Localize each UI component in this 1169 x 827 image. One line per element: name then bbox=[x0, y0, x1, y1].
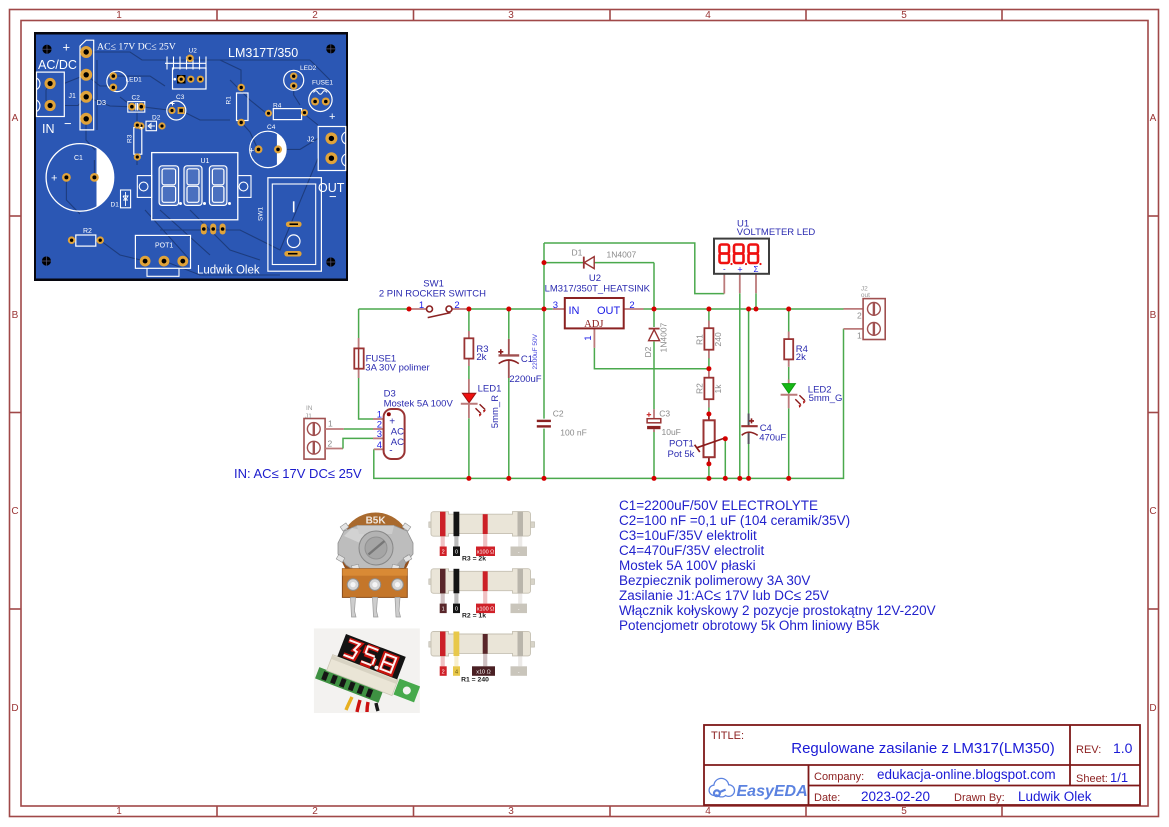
svg-text:C4: C4 bbox=[267, 124, 276, 131]
wire J1 pin1 to D3 pin2 bbox=[344, 428, 373, 430]
junction bottom rail/LED2 bbox=[786, 476, 791, 481]
svg-text:−: − bbox=[329, 189, 337, 204]
svg-text:AC≤ 17V DC≤ 25V: AC≤ 17V DC≤ 25V bbox=[97, 42, 176, 53]
svg-text:B: B bbox=[1150, 310, 1157, 321]
svg-text:LED2: LED2 bbox=[300, 65, 317, 72]
svg-text:IN: AC≤ 17V DC≤ 25V: IN: AC≤ 17V DC≤ 25V bbox=[234, 466, 362, 481]
wire ADJ bbox=[594, 348, 709, 369]
svg-text:D1: D1 bbox=[111, 202, 120, 209]
switch SW1 bbox=[379, 279, 486, 318]
svg-text:2200uF 50V: 2200uF 50V bbox=[532, 333, 539, 369]
svg-text:2 PIN ROCKER SWITCH: 2 PIN ROCKER SWITCH bbox=[379, 289, 486, 300]
glowing red digits 36.8 bbox=[343, 639, 397, 674]
junction R2/POT1 bbox=[706, 412, 711, 417]
svg-text:R2: R2 bbox=[694, 383, 704, 394]
svg-text:SW1: SW1 bbox=[258, 207, 265, 221]
connector J2 bbox=[844, 286, 886, 341]
svg-text:TITLE:: TITLE: bbox=[711, 730, 744, 742]
resistor R3 bbox=[464, 331, 488, 366]
svg-text:3: 3 bbox=[508, 10, 514, 21]
capacitor C2 bbox=[537, 409, 587, 438]
svg-text:+: + bbox=[51, 173, 57, 185]
LED LED2 bbox=[781, 380, 843, 409]
svg-text:2200uF: 2200uF bbox=[509, 374, 541, 385]
svg-text:C1=2200uF/50V ELECTROLYTE: C1=2200uF/50V ELECTROLYTE bbox=[619, 498, 818, 513]
svg-text:5mm_R: 5mm_R bbox=[490, 395, 501, 428]
svg-text:100 nF: 100 nF bbox=[560, 428, 586, 438]
svg-text:Mostek 5A 100V: Mostek 5A 100V bbox=[384, 399, 454, 410]
diode D2 bbox=[643, 322, 669, 357]
svg-text:REV:: REV: bbox=[1076, 744, 1101, 756]
resistor R1 branch wire bbox=[708, 309, 710, 369]
R1 footprint bbox=[237, 84, 249, 127]
svg-text:−: − bbox=[64, 116, 72, 131]
C2 footprint bbox=[128, 102, 145, 113]
wires bbox=[346, 697, 352, 710]
svg-text:LM317/350T_HEATSINK: LM317/350T_HEATSINK bbox=[545, 283, 651, 294]
corner holes bbox=[42, 44, 336, 266]
svg-text:5: 5 bbox=[901, 806, 907, 817]
svg-text:C: C bbox=[11, 506, 18, 517]
junction bottom rail/LED1 bbox=[466, 476, 471, 481]
svg-text:2: 2 bbox=[857, 310, 862, 320]
svg-text:+: + bbox=[249, 146, 254, 156]
svg-text:Ludwik Olek: Ludwik Olek bbox=[1018, 789, 1092, 804]
cream case bbox=[327, 655, 398, 696]
node branch x=544 wires bbox=[544, 243, 724, 309]
svg-text:Włącznik kołyskowy 2 pozycje p: Włącznik kołyskowy 2 pozycje prostokątny… bbox=[619, 603, 936, 618]
junction ADJ/R1/R2 bbox=[706, 366, 711, 371]
svg-text:-: - bbox=[723, 265, 726, 274]
junction rail/C1 branch bbox=[506, 307, 511, 312]
junction bottom rail/C2 bbox=[542, 476, 547, 481]
black display face bbox=[337, 634, 405, 679]
svg-text:2k: 2k bbox=[796, 352, 806, 363]
svg-text:1/1: 1/1 bbox=[1110, 770, 1128, 785]
svg-text:R3 = 2k: R3 = 2k bbox=[462, 556, 486, 563]
SW1 footprint bbox=[268, 178, 322, 272]
svg-text:IN: IN bbox=[42, 122, 55, 136]
svg-text:Potencjometr obrotowy 5k Ohm l: Potencjometr obrotowy 5k Ohm liniowy B5k bbox=[619, 618, 880, 633]
U1 footprint bbox=[137, 153, 251, 235]
LED LED1 bbox=[461, 379, 502, 428]
junction bottom rail/C4 bbox=[746, 476, 751, 481]
svg-text:LED1: LED1 bbox=[126, 77, 143, 84]
svg-text:B5K: B5K bbox=[366, 516, 387, 527]
svg-text:C3: C3 bbox=[176, 94, 185, 101]
D2 footprint bbox=[137, 121, 165, 131]
fuse FUSE1 bbox=[354, 338, 429, 378]
svg-text:-: - bbox=[518, 607, 520, 613]
voltmeter U1 bbox=[714, 219, 815, 294]
svg-text:Pot 5k: Pot 5k bbox=[668, 449, 695, 460]
D3 footprint bbox=[80, 40, 94, 130]
junction rail/R1 branch bbox=[706, 307, 711, 312]
svg-text:D1: D1 bbox=[572, 248, 583, 258]
PHOTO resistor R2 (brown-black-red) bbox=[429, 569, 535, 620]
SCHEMATIC bbox=[234, 219, 885, 482]
svg-text:AC/DC: AC/DC bbox=[38, 58, 77, 72]
LED2 footprint bbox=[284, 70, 304, 90]
svg-text:2: 2 bbox=[312, 10, 318, 21]
POT1 footprint bbox=[135, 235, 190, 276]
svg-text:C2=100 nF =0,1 uF (104 ceramik: C2=100 nF =0,1 uF (104 ceramik/35V) bbox=[619, 513, 850, 528]
svg-text:Company:: Company: bbox=[814, 771, 864, 783]
svg-text:OUT: OUT bbox=[597, 305, 621, 317]
junction bottom rail/POT1 bbox=[706, 476, 711, 481]
svg-text:C2: C2 bbox=[132, 95, 141, 102]
junction D1 tap bbox=[542, 260, 547, 265]
junction bottom rail/C1 bbox=[506, 476, 511, 481]
svg-text:R1: R1 bbox=[694, 334, 704, 345]
svg-text:ADJ: ADJ bbox=[584, 319, 603, 330]
regulator U2 bbox=[545, 273, 651, 348]
svg-text:Ludwik Olek: Ludwik Olek bbox=[197, 265, 260, 277]
D1 footprint bbox=[121, 190, 131, 208]
svg-text:U2: U2 bbox=[189, 48, 198, 55]
svg-text:VOLTMETER LED: VOLTMETER LED bbox=[737, 227, 816, 238]
svg-text:D2: D2 bbox=[643, 346, 653, 357]
svg-text:R2: R2 bbox=[83, 228, 92, 235]
svg-text:1: 1 bbox=[116, 10, 122, 21]
LED1 footprint bbox=[107, 71, 127, 91]
svg-text:1: 1 bbox=[583, 336, 594, 341]
svg-text:B: B bbox=[12, 310, 19, 321]
svg-text:2: 2 bbox=[442, 550, 445, 556]
junction POT1 wiper bbox=[723, 436, 728, 441]
resistor R4 branch wire bbox=[788, 309, 790, 478]
svg-text:5: 5 bbox=[901, 10, 907, 21]
svg-text:Zasilanie J1:AC≤ 17V lub DC≤ 2: Zasilanie J1:AC≤ 17V lub DC≤ 25V bbox=[619, 588, 829, 603]
svg-text:R1 = 240: R1 = 240 bbox=[461, 676, 489, 683]
green pcb strip bbox=[315, 667, 383, 703]
PHOTO resistor R1 (red-yellow-brown) bbox=[429, 631, 535, 683]
svg-text:-: - bbox=[389, 446, 392, 457]
svg-text:1N4007: 1N4007 bbox=[607, 250, 637, 260]
svg-text:1: 1 bbox=[328, 419, 333, 429]
junction rail/C2/D1 branch bbox=[542, 307, 547, 312]
svg-text:FUSE1: FUSE1 bbox=[312, 80, 333, 87]
wire J1 pin2 to D3 pin3 bbox=[343, 438, 373, 448]
svg-text:3: 3 bbox=[508, 806, 514, 817]
svg-text:+: + bbox=[63, 40, 71, 55]
svg-text:2: 2 bbox=[454, 300, 459, 311]
resistor R3 / LED1 branch wire bbox=[468, 309, 470, 478]
PCB LAYOUT IMAGE bbox=[34, 32, 348, 281]
svg-text:4: 4 bbox=[705, 10, 711, 21]
svg-text:edukacja-online.blogspot.com: edukacja-online.blogspot.com bbox=[877, 767, 1056, 782]
capacitor C2 branch wire bbox=[543, 309, 545, 478]
diode D2 branch wire bbox=[653, 309, 655, 478]
svg-text:LED1: LED1 bbox=[478, 383, 502, 394]
junction rail/D2 branch bbox=[652, 307, 657, 312]
junction rail/R4 branch bbox=[786, 307, 791, 312]
svg-text:U1: U1 bbox=[201, 158, 210, 165]
svg-text:1: 1 bbox=[857, 331, 862, 341]
green tab bbox=[394, 679, 421, 703]
svg-text:C: C bbox=[1149, 506, 1156, 517]
svg-text:2: 2 bbox=[328, 439, 333, 449]
junction rail/C4 branch bbox=[746, 307, 751, 312]
resistor R4 bbox=[784, 332, 808, 367]
svg-text:470uF: 470uF bbox=[759, 433, 786, 444]
svg-text:2: 2 bbox=[442, 669, 445, 675]
svg-text:C1: C1 bbox=[74, 155, 83, 162]
svg-text:1: 1 bbox=[116, 806, 122, 817]
svg-text:C3: C3 bbox=[659, 409, 670, 419]
junction rail/R3 branch bbox=[466, 307, 471, 312]
svg-text:2: 2 bbox=[629, 300, 634, 311]
svg-text:4: 4 bbox=[377, 440, 382, 451]
svg-text:240: 240 bbox=[713, 332, 723, 346]
svg-text:Drawn By:: Drawn By: bbox=[954, 792, 1005, 804]
junction bottom rail/C3 bbox=[652, 476, 657, 481]
svg-text:EasyEDA: EasyEDA bbox=[737, 783, 808, 800]
connector J1 bbox=[304, 405, 344, 459]
C3 footprint bbox=[167, 101, 186, 120]
svg-text:D: D bbox=[1149, 703, 1156, 714]
svg-text:R3: R3 bbox=[127, 134, 134, 143]
R3 footprint bbox=[134, 122, 142, 161]
R2 footprint bbox=[68, 235, 104, 246]
svg-text:C4=470uF/35V electrolit: C4=470uF/35V electrolit bbox=[619, 543, 764, 558]
J2 footprint bbox=[318, 127, 346, 171]
svg-text:A: A bbox=[1150, 113, 1157, 124]
R4 footprint bbox=[265, 109, 308, 120]
resistor R2 bbox=[694, 369, 723, 408]
capacitor C1 branch wire bbox=[508, 309, 510, 478]
svg-text:3: 3 bbox=[553, 300, 558, 311]
svg-text:C2: C2 bbox=[553, 409, 564, 419]
junction POT1 lower pin bbox=[706, 461, 711, 466]
EasyEDA logo bbox=[710, 779, 808, 800]
svg-text:IN: IN bbox=[306, 405, 313, 412]
junction bottom rail/wiper bbox=[723, 476, 728, 481]
svg-text:5mm_G: 5mm_G bbox=[809, 393, 843, 404]
svg-text:1.0: 1.0 bbox=[1113, 740, 1133, 756]
resistor R1 bbox=[694, 321, 723, 359]
svg-text:AC: AC bbox=[391, 437, 404, 448]
svg-text:LM317T/350: LM317T/350 bbox=[228, 46, 298, 60]
svg-text:J1: J1 bbox=[305, 413, 312, 420]
svg-text:2: 2 bbox=[312, 806, 318, 817]
capacitor C1 bbox=[498, 333, 542, 384]
wire U1 pin2 down bbox=[739, 293, 741, 478]
wire POT1 lower + wiper bbox=[709, 439, 725, 479]
svg-text:1N4007: 1N4007 bbox=[659, 322, 669, 352]
wire bottom rail bbox=[374, 329, 844, 479]
svg-text:Mostek 5A 100V płaski: Mostek 5A 100V płaski bbox=[619, 558, 756, 573]
svg-text:3A 30V polimer: 3A 30V polimer bbox=[365, 363, 429, 374]
svg-text:J1: J1 bbox=[69, 93, 77, 100]
svg-text:A: A bbox=[12, 113, 19, 124]
svg-text:C3=10uF/35V elektrolit: C3=10uF/35V elektrolit bbox=[619, 528, 757, 543]
svg-text:POT1: POT1 bbox=[155, 243, 173, 250]
svg-text:4: 4 bbox=[705, 806, 711, 817]
silkscreen texts bbox=[38, 40, 345, 277]
svg-text:2023-02-20: 2023-02-20 bbox=[861, 789, 930, 804]
svg-text:out: out bbox=[861, 292, 870, 299]
svg-text:D: D bbox=[11, 703, 18, 714]
TITLE BLOCK bbox=[704, 725, 1140, 805]
potentiometer POT1 bbox=[668, 414, 724, 464]
junction SW1 pin1 node bbox=[407, 307, 412, 312]
traces bbox=[46, 52, 330, 275]
svg-text:IN: IN bbox=[569, 305, 580, 317]
C4 footprint bbox=[249, 131, 286, 167]
svg-text:x10 Ω: x10 Ω bbox=[476, 669, 491, 675]
svg-text:R2 = 1k: R2 = 1k bbox=[462, 613, 486, 620]
svg-text:Date:: Date: bbox=[814, 792, 840, 804]
svg-text:1k: 1k bbox=[713, 384, 723, 394]
bridge rectifier D3 bbox=[373, 389, 453, 460]
svg-text:Sheet:: Sheet: bbox=[1076, 773, 1108, 785]
wire fuse branch bbox=[359, 309, 373, 419]
diode D1 bbox=[572, 248, 637, 269]
svg-text:0: 0 bbox=[455, 607, 458, 613]
svg-text:4: 4 bbox=[455, 669, 458, 675]
svg-text:D2: D2 bbox=[152, 115, 161, 122]
capacitor C3 bbox=[647, 409, 681, 437]
SPEC TEXT LIST bbox=[619, 498, 936, 633]
svg-text:1: 1 bbox=[442, 607, 445, 613]
svg-text:3: 3 bbox=[377, 429, 382, 440]
svg-text:2k: 2k bbox=[476, 352, 486, 363]
svg-text:-: - bbox=[518, 550, 520, 556]
junction bottom rail/U1 pin2 bbox=[737, 476, 742, 481]
svg-text:-: - bbox=[518, 669, 520, 675]
U2 footprint bbox=[165, 55, 206, 90]
PHOTO resistor R3 (red-black-red) bbox=[429, 512, 535, 563]
svg-text:+: + bbox=[329, 111, 335, 123]
svg-text:AC: AC bbox=[391, 427, 404, 438]
svg-text:Bezpiecznik polimerowy 3A 30V: Bezpiecznik polimerowy 3A 30V bbox=[619, 573, 810, 588]
wire U1 pin3 down bbox=[755, 293, 757, 309]
FUSE1 footprint bbox=[309, 88, 332, 111]
wire R2 to POT1 bbox=[708, 408, 710, 415]
C1 footprint bbox=[46, 144, 114, 212]
junction rail/U1 pin3 bbox=[754, 307, 759, 312]
svg-text:Regulowane zasilanie z LM317(L: Regulowane zasilanie z LM317(LM350) bbox=[791, 740, 1054, 757]
svg-text:Σ: Σ bbox=[754, 265, 759, 274]
wire main top rail bbox=[359, 308, 844, 310]
svg-text:D3: D3 bbox=[97, 98, 107, 107]
svg-text:J2: J2 bbox=[307, 137, 315, 144]
svg-text:0: 0 bbox=[455, 550, 458, 556]
J1 footprint bbox=[37, 72, 65, 116]
capacitor C4 bbox=[741, 414, 786, 445]
svg-text:1: 1 bbox=[419, 300, 424, 311]
capacitor C4 branch wire bbox=[748, 309, 750, 478]
svg-text:+: + bbox=[737, 265, 742, 275]
svg-text:R1: R1 bbox=[226, 96, 233, 105]
PHOTO potentiometer B5K bbox=[336, 512, 413, 617]
svg-text:10uF: 10uF bbox=[662, 427, 681, 437]
